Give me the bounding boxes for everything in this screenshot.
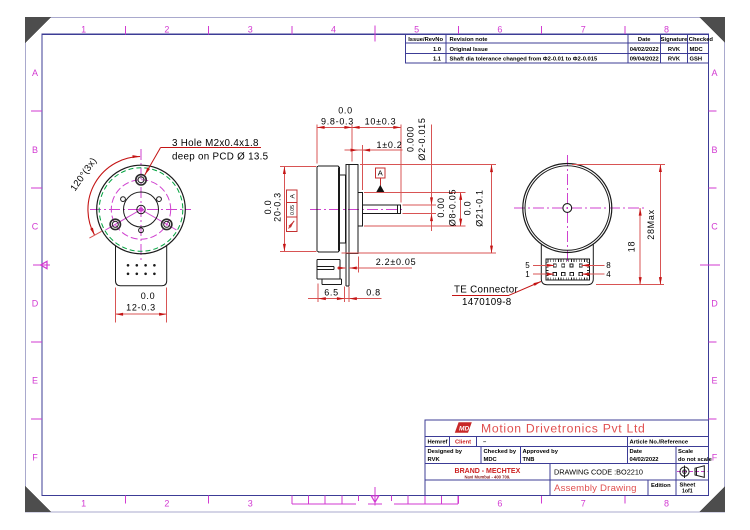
revision table header text — [408, 37, 713, 43]
brand MECHTEX text — [455, 468, 521, 480]
svg-text:Signature: Signature — [661, 37, 689, 43]
dimension text 20-0.3 — [263, 192, 283, 222]
dimension 12-0.3 line and arrows — [116, 313, 167, 316]
motor body outer circle front — [97, 165, 186, 254]
svg-text:7: 7 — [581, 25, 586, 35]
svg-text:F: F — [712, 452, 718, 462]
svg-text:5: 5 — [414, 25, 419, 35]
TE connector text — [454, 285, 518, 308]
connector pins rear bottom row — [553, 272, 582, 275]
svg-text:8: 8 — [606, 261, 611, 270]
motor body inner circle rear — [525, 166, 610, 251]
svg-text:Navi Mumbai - 400 709.: Navi Mumbai - 400 709. — [464, 474, 510, 479]
svg-text:3: 3 — [248, 25, 253, 35]
svg-text:F: F — [32, 452, 38, 462]
grid row labels left — [32, 68, 39, 462]
svg-text:1±0.2: 1±0.2 — [377, 140, 403, 150]
svg-text:MDC: MDC — [484, 457, 498, 463]
connector housing front outline — [116, 246, 167, 286]
rear view vertical centerline — [566, 155, 568, 262]
svg-text:04/02/2022: 04/02/2022 — [630, 47, 659, 53]
datum feature A frame — [375, 168, 385, 186]
svg-text:Checked: Checked — [689, 37, 714, 43]
svg-text:20-0.3: 20-0.3 — [273, 192, 283, 222]
shaft side view — [363, 205, 401, 214]
company logo MD — [455, 422, 472, 433]
sheet cell — [680, 482, 696, 494]
svg-text:2: 2 — [164, 25, 169, 35]
svg-text:8: 8 — [664, 499, 669, 509]
svg-text:D: D — [711, 299, 718, 309]
grid column labels bottom — [81, 499, 669, 509]
dimension text dia2-0.015 — [405, 117, 427, 160]
svg-text:Approved by: Approved by — [523, 449, 559, 455]
svg-text:1.1: 1.1 — [433, 57, 442, 63]
front view radial spoke 330deg — [141, 210, 177, 231]
grid column labels top — [81, 25, 669, 35]
pin 5 leader — [533, 264, 555, 267]
centering mark top — [374, 26, 376, 42]
revision row 1.0 — [433, 47, 704, 53]
svg-text:C: C — [711, 222, 718, 232]
hub circle front — [124, 192, 159, 227]
svg-text:2: 2 — [164, 499, 169, 509]
grid tick marks bottom edge — [125, 496, 625, 504]
svg-text:Shaft dia tolerance changed fr: Shaft dia tolerance changed from Φ2-0.01… — [450, 57, 598, 63]
end bell rim side view — [340, 175, 346, 243]
svg-text:Motion Drivetronics Pvt Ltd: Motion Drivetronics Pvt Ltd — [481, 421, 646, 435]
svg-text:MD: MD — [459, 425, 469, 432]
svg-text:Article No./Reference: Article No./Reference — [630, 440, 689, 446]
inner border frame — [42, 34, 709, 495]
svg-text:D: D — [32, 299, 39, 309]
svg-text:deep on PCD Ø 13.5: deep on PCD Ø 13.5 — [172, 152, 269, 163]
svg-text:E: E — [711, 376, 717, 386]
pin 1 leader — [533, 273, 555, 276]
corner trim triangle top-right — [699, 17, 725, 43]
svg-text:6: 6 — [497, 499, 502, 509]
svg-text:B: B — [711, 145, 717, 155]
dimension text 12-0.3 — [126, 291, 156, 313]
svg-text:0.0: 0.0 — [263, 200, 273, 215]
datum triangle — [376, 185, 384, 192]
revision table grid — [405, 34, 708, 63]
svg-text:MDC: MDC — [690, 47, 704, 53]
svg-text:Scale: Scale — [678, 449, 694, 455]
svg-text:Date: Date — [638, 37, 651, 43]
svg-text:RVK: RVK — [668, 47, 681, 53]
svg-text:10±0.3: 10±0.3 — [365, 116, 397, 126]
motor body side view — [317, 166, 340, 252]
corner trim triangle top-left — [25, 17, 51, 43]
dimension dia2 extension lines — [403, 205, 437, 214]
title row3 designed checked approved — [428, 449, 713, 463]
svg-text:Date: Date — [630, 449, 643, 455]
svg-text:C: C — [32, 222, 39, 232]
svg-text:9.8-0.3: 9.8-0.3 — [321, 116, 354, 126]
svg-text:1: 1 — [81, 499, 86, 509]
pin 8 leader — [582, 264, 605, 267]
svg-text:1: 1 — [81, 25, 86, 35]
leader line 3-hole callout — [144, 148, 261, 176]
dimension 20-0.3 line — [283, 166, 286, 251]
dimension text 9.8-0.3 — [321, 106, 354, 127]
svg-text:do not scale: do not scale — [678, 457, 713, 463]
svg-text:3 Hole M2x0.4x1.8: 3 Hole M2x0.4x1.8 — [172, 138, 259, 149]
mounting hole M2 lower-left — [110, 219, 120, 229]
svg-text:7: 7 — [581, 499, 586, 509]
svg-text:2.2±0.05: 2.2±0.05 — [376, 257, 417, 267]
dimension line 9.8-0.3 / 10+-0.3 — [317, 126, 401, 129]
svg-text:E: E — [32, 376, 38, 386]
dimension 18 line — [596, 208, 664, 285]
dimension dia2 line — [430, 125, 433, 232]
dimension 6.5 / 0.8 line — [308, 297, 382, 300]
front view radial spoke 210deg — [106, 210, 142, 231]
svg-text:Assembly Drawing: Assembly Drawing — [554, 483, 637, 494]
svg-text:RVK: RVK — [668, 57, 681, 63]
svg-text:4: 4 — [331, 25, 336, 35]
svg-text:Issue/RevNo: Issue/RevNo — [408, 37, 443, 43]
dimension 20-0.3 extension lines — [280, 166, 317, 251]
dimension 2.2+-0.05 line — [337, 257, 412, 273]
dimension dia21 extension lines — [342, 165, 496, 254]
centering mark right — [700, 264, 720, 266]
dimension dia8 extension lines — [364, 192, 466, 226]
svg-text:A: A — [378, 169, 383, 178]
connector housing rear outline — [541, 245, 593, 285]
svg-text:28Max: 28Max — [646, 209, 656, 240]
svg-text:Sheet: Sheet — [680, 482, 696, 488]
svg-text:Hemref: Hemref — [428, 440, 448, 446]
svg-text:1: 1 — [525, 270, 530, 279]
svg-text:3: 3 — [248, 499, 253, 509]
dimension dia8 line — [459, 192, 462, 226]
svg-text:A: A — [32, 68, 38, 78]
connector shell rear — [546, 259, 590, 280]
grid row labels right — [711, 68, 718, 462]
TE connector leader — [452, 280, 542, 295]
svg-text:Client: Client — [455, 440, 471, 446]
corner trim triangle bottom-left — [25, 486, 51, 512]
svg-text:8: 8 — [664, 25, 669, 35]
pcb edge below flange — [346, 254, 349, 286]
dimension text dia21-0.1 — [463, 189, 485, 226]
svg-text:5: 5 — [525, 261, 530, 270]
svg-text:A: A — [289, 193, 296, 198]
svg-text:Revision note: Revision note — [450, 37, 489, 43]
svg-text:04/02/2022: 04/02/2022 — [630, 457, 659, 463]
shaft hub boss side view — [358, 192, 362, 226]
svg-text:0.8: 0.8 — [366, 288, 381, 298]
mounting hole M2 lower-right — [162, 219, 172, 229]
small hole bottom — [139, 228, 144, 233]
small hole upper-right — [157, 197, 162, 202]
svg-text:0.0: 0.0 — [338, 106, 353, 116]
mounting flange side view — [346, 164, 358, 253]
revision row 1.1 — [433, 57, 702, 63]
PCD circle magenta dashed — [111, 180, 170, 239]
metric reference graduation bottom — [292, 496, 458, 505]
svg-text:18: 18 — [627, 241, 637, 252]
dimension 6.5 and 0.8 extension lines — [318, 284, 349, 303]
svg-text:Original Issue: Original Issue — [450, 47, 489, 53]
svg-text:12-0.3: 12-0.3 — [126, 303, 156, 313]
angle dimension arc 120deg — [88, 155, 140, 238]
motor body outer circle rear — [523, 164, 612, 253]
connector pin dots front — [127, 264, 156, 275]
projection symbol — [677, 465, 707, 477]
svg-text:Ø2-0.015: Ø2-0.015 — [417, 117, 427, 160]
centering mark left — [33, 261, 50, 268]
small hole upper-left — [121, 197, 126, 202]
pin 4 leader — [582, 273, 605, 276]
svg-text:1470109-8: 1470109-8 — [462, 297, 512, 308]
svg-text:0.0: 0.0 — [141, 291, 156, 301]
centering mark bottom — [371, 487, 379, 506]
svg-text:A: A — [711, 68, 717, 78]
front view horizontal centerline — [90, 209, 191, 211]
svg-text:1.0: 1.0 — [433, 47, 441, 53]
connector pins rear top row — [553, 264, 582, 267]
svg-text:Checked by: Checked by — [484, 449, 517, 455]
svg-text:6.5: 6.5 — [324, 288, 339, 298]
svg-text:0.000: 0.000 — [405, 126, 415, 152]
svg-text:RVK: RVK — [428, 457, 441, 463]
svg-text:1of1: 1of1 — [682, 489, 693, 495]
svg-text:Ø8-0.05: Ø8-0.05 — [448, 189, 458, 226]
connector shell hatching — [546, 259, 589, 280]
svg-text:B: B — [32, 145, 38, 155]
dimension 12-0.3 extension lines — [116, 288, 167, 323]
center hole rear — [563, 204, 572, 213]
svg-text:Edition: Edition — [651, 483, 671, 489]
svg-text:6: 6 — [497, 25, 502, 35]
title row2 labels — [428, 440, 689, 446]
corner trim triangle bottom-right — [699, 486, 725, 512]
center shaft hole front — [137, 205, 145, 213]
dimension 9.8 and 10 extension lines — [317, 124, 401, 202]
runout tolerance frame — [287, 190, 298, 232]
callout text 3 Hole M2 — [172, 138, 269, 162]
dimension 1+-0.2 line — [345, 145, 403, 190]
mounting hole M2 top — [136, 175, 146, 185]
grid tick marks right edge — [709, 111, 717, 419]
svg-text:09/04/2022: 09/04/2022 — [630, 57, 659, 63]
svg-text:0.05: 0.05 — [290, 205, 296, 215]
svg-text:Designed by: Designed by — [428, 449, 463, 455]
green dashed circle front — [99, 168, 183, 252]
svg-text:GSH: GSH — [690, 57, 703, 63]
svg-text:Ø21-0.1: Ø21-0.1 — [475, 189, 485, 226]
svg-text:0.0: 0.0 — [463, 201, 473, 216]
dimension 28Max line — [572, 164, 665, 284]
side view centerline — [310, 208, 405, 210]
front view vertical centerline — [140, 149, 142, 263]
connector bracket side view — [317, 260, 341, 285]
svg-text:TNB: TNB — [523, 457, 535, 463]
title block grid — [425, 420, 708, 496]
grid tick marks left edge — [31, 111, 42, 419]
grid tick marks top edge — [125, 26, 625, 34]
dimension dia21 line — [490, 165, 493, 254]
rear view horizontal centerline — [514, 207, 644, 209]
svg-text:0.00: 0.00 — [436, 197, 446, 217]
svg-text:TE Connector: TE Connector — [454, 285, 518, 296]
svg-text:4: 4 — [606, 270, 611, 279]
svg-text:DRAWING CODE :BO2210: DRAWING CODE :BO2210 — [554, 468, 643, 477]
dimension text dia8-0.05 — [436, 189, 458, 226]
